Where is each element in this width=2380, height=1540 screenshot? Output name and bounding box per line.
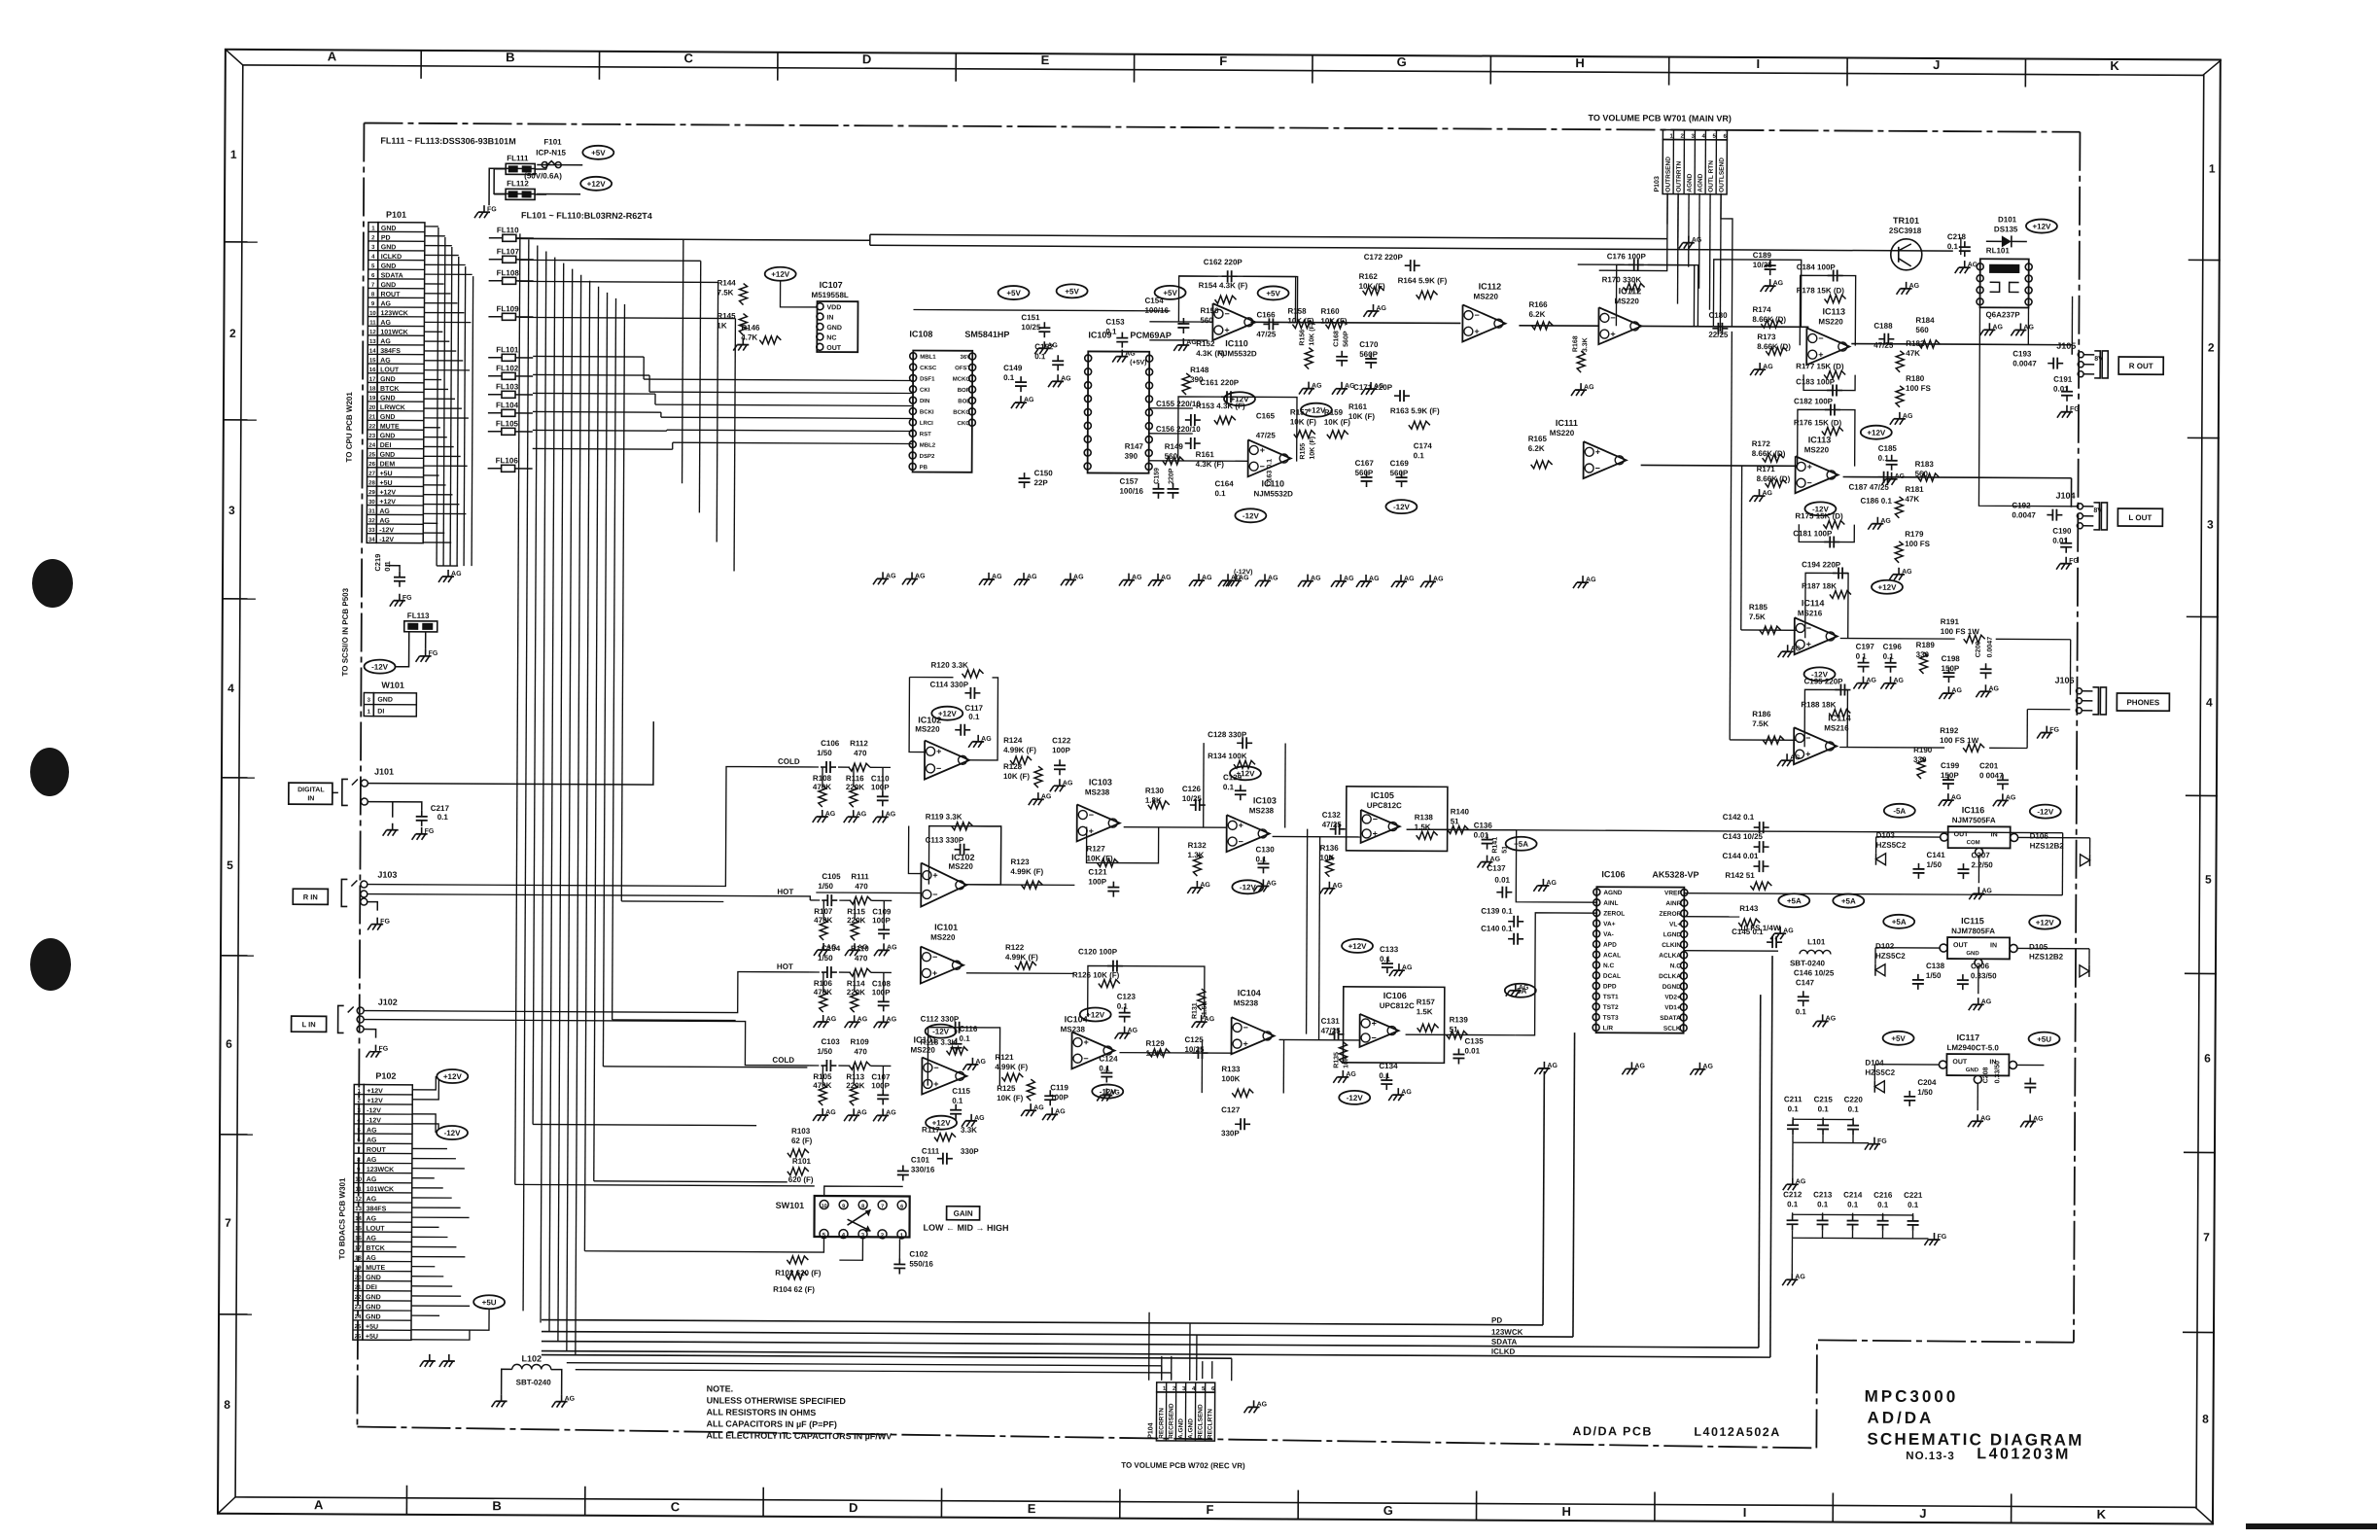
svg-text:FL102: FL102 <box>496 364 519 372</box>
svg-text:C149: C149 <box>1003 364 1023 372</box>
svg-text:CLKIN: CLKIN <box>1662 942 1681 949</box>
svg-text:+12V: +12V <box>587 180 607 189</box>
svg-text:N.C: N.C <box>1670 962 1682 969</box>
svg-text:7.5K: 7.5K <box>1749 612 1766 621</box>
svg-text:0.1: 0.1 <box>1907 1201 1919 1209</box>
svg-text:-12V: -12V <box>1393 503 1411 511</box>
svg-text:AG: AG <box>1033 1104 1044 1111</box>
svg-text:E: E <box>1028 1501 1036 1516</box>
svg-text:+: + <box>1474 327 1479 336</box>
svg-text:COM: COM <box>1967 840 1980 846</box>
svg-text:R122: R122 <box>1005 943 1025 952</box>
svg-text:C131: C131 <box>1321 1017 1341 1026</box>
svg-text:−: − <box>936 763 941 773</box>
svg-text:0.1: 0.1 <box>437 813 449 822</box>
svg-text:SDATA: SDATA <box>1660 1015 1681 1022</box>
svg-text:GND: GND <box>380 395 396 402</box>
svg-text:C197: C197 <box>1856 643 1875 651</box>
svg-text:C119: C119 <box>1050 1083 1068 1092</box>
svg-text:C150: C150 <box>1034 469 1054 477</box>
svg-text:ALL RESISTORS IN OHMS: ALL RESISTORS IN OHMS <box>707 1407 817 1417</box>
svg-text:IC114: IC114 <box>1828 713 1851 722</box>
svg-text:LOUT: LOUT <box>380 367 400 373</box>
svg-text:GND: GND <box>381 263 397 270</box>
svg-text:HZS12B2: HZS12B2 <box>2030 842 2065 851</box>
svg-text:UPC812C: UPC812C <box>1367 801 1402 810</box>
svg-text:AGND: AGND <box>1687 173 1694 192</box>
svg-text:+: + <box>933 1079 938 1089</box>
svg-text:C145 0.1: C145 0.1 <box>1732 927 1764 936</box>
svg-text:MS216: MS216 <box>1824 723 1849 732</box>
svg-text:AG: AG <box>1344 576 1354 582</box>
svg-text:390: 390 <box>1125 452 1138 461</box>
svg-text:0.0047: 0.0047 <box>2012 510 2036 519</box>
svg-text:IN: IN <box>1990 942 1997 949</box>
svg-text:H: H <box>1575 55 1584 70</box>
svg-text:10/25: 10/25 <box>1021 323 1041 332</box>
svg-text:0.1: 0.1 <box>952 1097 963 1105</box>
svg-text:IC111: IC111 <box>1556 418 1578 428</box>
svg-text:D101: D101 <box>1998 215 2017 224</box>
svg-text:R140: R140 <box>1451 807 1470 816</box>
svg-text:RECLSEND: RECLSEND <box>1197 1404 1204 1439</box>
svg-text:J102: J102 <box>378 997 398 1007</box>
svg-text:AG: AG <box>826 1016 837 1023</box>
svg-text:SBT-0240: SBT-0240 <box>1790 959 1826 967</box>
svg-text:C120 100P: C120 100P <box>1078 947 1118 956</box>
svg-text:26: 26 <box>355 1334 362 1340</box>
svg-text:R165: R165 <box>1528 435 1548 443</box>
svg-text:4.99K (F): 4.99K (F) <box>1010 867 1043 876</box>
svg-text:+5U: +5U <box>482 1298 497 1307</box>
svg-text:C151: C151 <box>1021 313 1040 322</box>
svg-text:IC113: IC113 <box>1822 306 1845 316</box>
svg-text:123WCK: 123WCK <box>367 1167 394 1173</box>
svg-text:AG: AG <box>1125 351 1136 358</box>
svg-text:R111: R111 <box>851 872 869 881</box>
svg-text:+5A: +5A <box>1841 897 1856 906</box>
svg-text:R161: R161 <box>1348 402 1368 411</box>
svg-text:GAIN: GAIN <box>954 1209 973 1218</box>
svg-text:0.1: 0.1 <box>1414 451 1425 460</box>
svg-text:C138: C138 <box>1926 962 1945 970</box>
svg-text:1.5K: 1.5K <box>1417 1007 1433 1016</box>
svg-text:+5U: +5U <box>366 1334 378 1341</box>
svg-text:AG: AG <box>1369 576 1380 582</box>
svg-text:+: + <box>1806 640 1811 649</box>
svg-text:MS238: MS238 <box>1234 998 1259 1007</box>
svg-text:AG: AG <box>1634 1063 1645 1069</box>
svg-text:123WCK: 123WCK <box>380 310 407 317</box>
svg-text:+12V: +12V <box>2036 919 2055 927</box>
svg-text:0 0047: 0 0047 <box>1979 771 2004 780</box>
svg-text:FL111 ~ FL113:DSS306-93B101M: FL111 ~ FL113:DSS306-93B101M <box>380 136 515 147</box>
svg-text:A: A <box>328 49 337 63</box>
svg-text:AG: AG <box>1895 473 1906 480</box>
svg-text:7.5K: 7.5K <box>717 288 734 297</box>
svg-text:C107: C107 <box>871 1072 891 1081</box>
svg-text:C213: C213 <box>1813 1190 1833 1199</box>
svg-text:1: 1 <box>2209 161 2216 175</box>
svg-text:AG: AG <box>825 1109 836 1116</box>
svg-text:TST2: TST2 <box>1603 1004 1619 1011</box>
svg-text:AG: AG <box>2033 1116 2044 1123</box>
svg-text:3.3K: 3.3K <box>1582 337 1589 352</box>
svg-text:AG: AG <box>1951 687 1962 694</box>
svg-text:23: 23 <box>355 1305 362 1311</box>
svg-text:MPC3000: MPC3000 <box>1865 1387 1959 1407</box>
svg-text:C208: C208 <box>1982 1067 1989 1083</box>
svg-text:+5V: +5V <box>591 149 606 157</box>
svg-text:IC107: IC107 <box>820 280 843 290</box>
svg-text:MS220: MS220 <box>1550 429 1575 437</box>
svg-text:C125: C125 <box>1185 1035 1205 1044</box>
svg-text:C187 47/25: C187 47/25 <box>1849 483 1890 492</box>
svg-text:C170: C170 <box>1359 340 1379 349</box>
svg-text:AD/DA: AD/DA <box>1867 1409 1934 1427</box>
svg-text:R150: R150 <box>1200 306 1219 315</box>
svg-text:DIGITAL: DIGITAL <box>297 787 325 793</box>
svg-text:IC106: IC106 <box>1383 991 1407 1000</box>
svg-text:AG: AG <box>1692 237 1702 244</box>
svg-text:AG: AG <box>1128 1028 1138 1034</box>
svg-text:R191: R191 <box>1941 617 1960 626</box>
svg-text:GND: GND <box>381 226 397 232</box>
svg-text:C102: C102 <box>909 1249 928 1258</box>
svg-text:IN: IN <box>307 795 314 802</box>
svg-text:R109: R109 <box>851 1037 870 1046</box>
svg-text:UNLESS OTHERWISE SPECIFIED: UNLESS OTHERWISE SPECIFIED <box>707 1395 847 1406</box>
svg-text:AG: AG <box>1231 575 1242 581</box>
svg-text:J106: J106 <box>2054 676 2074 685</box>
svg-text:R161: R161 <box>1196 450 1215 459</box>
svg-text:MUTE: MUTE <box>380 424 400 431</box>
svg-text:PD: PD <box>1491 1316 1502 1325</box>
svg-text:N.C: N.C <box>1603 962 1615 969</box>
svg-text:2: 2 <box>229 327 236 340</box>
svg-text:0.1: 0.1 <box>1379 1071 1390 1080</box>
svg-text:C134: C134 <box>1379 1062 1398 1070</box>
svg-text:R156: R156 <box>1299 330 1306 346</box>
svg-text:IC117: IC117 <box>1957 1032 1980 1042</box>
svg-text:GND: GND <box>366 1275 381 1281</box>
svg-text:−: − <box>933 1063 938 1072</box>
svg-text:GND: GND <box>380 414 396 421</box>
svg-text:J101: J101 <box>374 767 394 777</box>
svg-text:MS220: MS220 <box>1474 293 1499 301</box>
svg-text:C183 100P: C183 100P <box>1796 377 1836 386</box>
svg-text:NJM7505FA: NJM7505FA <box>1952 816 1996 824</box>
svg-text:PCM69AP: PCM69AP <box>1130 331 1172 340</box>
svg-text:CKO: CKO <box>958 421 971 427</box>
svg-text:AG: AG <box>367 1176 377 1183</box>
svg-text:AG: AG <box>1312 383 1322 390</box>
svg-text:ZEROR: ZEROR <box>1659 911 1681 918</box>
svg-text:R184: R184 <box>1915 316 1935 325</box>
svg-text:R124: R124 <box>1003 736 1023 745</box>
svg-text:TO VOLUME PCB W702 (REC VR: TO VOLUME PCB W702 (REC VR) <box>1121 1461 1245 1471</box>
svg-text:−: − <box>1083 1054 1088 1064</box>
svg-text:R104 62 (F): R104 62 (F) <box>773 1285 815 1294</box>
svg-text:AG: AG <box>1266 880 1277 887</box>
svg-text:IC113: IC113 <box>1808 435 1832 444</box>
svg-text:16: 16 <box>355 1236 362 1242</box>
svg-text:C110: C110 <box>871 774 890 783</box>
svg-text:−: − <box>1818 333 1823 343</box>
svg-text:+12V: +12V <box>771 270 790 279</box>
svg-text:+: + <box>932 870 937 880</box>
svg-text:-12V: -12V <box>371 663 389 672</box>
svg-text:−: − <box>1243 1023 1248 1032</box>
svg-text:R166: R166 <box>1528 300 1548 309</box>
svg-text:0.1: 0.1 <box>1883 652 1895 661</box>
svg-text:AG: AG <box>1790 754 1801 761</box>
svg-text:H: H <box>1562 1504 1571 1519</box>
svg-text:29: 29 <box>368 490 375 496</box>
svg-text:C201: C201 <box>1979 761 1999 770</box>
svg-text:C193: C193 <box>2012 349 2032 358</box>
svg-text:VREF: VREF <box>1664 890 1681 896</box>
svg-text:A.GND: A.GND <box>1187 1418 1194 1439</box>
svg-text:C146 10/25: C146 10/25 <box>1794 968 1835 977</box>
svg-text:C167: C167 <box>1355 459 1375 468</box>
svg-text:C172 220P: C172 220P <box>1364 253 1404 262</box>
svg-text:−: − <box>1474 310 1479 320</box>
svg-text:1/50: 1/50 <box>817 1047 832 1056</box>
svg-text:R185: R185 <box>1749 603 1768 612</box>
svg-text:C137: C137 <box>1487 864 1506 873</box>
svg-text:C142 0.1: C142 0.1 <box>1723 813 1755 822</box>
svg-text:C113 330P: C113 330P <box>926 836 964 845</box>
svg-text:+5A: +5A <box>1514 840 1528 849</box>
svg-text:1/50: 1/50 <box>818 954 833 962</box>
svg-text:MS238: MS238 <box>1249 806 1275 815</box>
svg-text:VA+: VA+ <box>1603 921 1616 927</box>
svg-text:28: 28 <box>368 480 375 486</box>
svg-text:AG: AG <box>1762 490 1772 497</box>
svg-text:DS135: DS135 <box>1994 225 2018 233</box>
svg-text:C105: C105 <box>822 872 841 881</box>
svg-text:AG: AG <box>887 1016 897 1023</box>
svg-text:FL107: FL107 <box>497 247 520 256</box>
svg-text:C188: C188 <box>1873 322 1893 331</box>
svg-text:C220: C220 <box>1844 1096 1864 1104</box>
svg-text:OUTLSEND: OUTLSEND <box>1719 157 1726 192</box>
svg-text:ALL ELECTROLYTIC CAPACITORS IN: ALL ELECTROLYTIC CAPACITORS IN µF/WV <box>706 1430 892 1441</box>
svg-text:100P: 100P <box>872 988 891 997</box>
svg-text:100/16: 100/16 <box>1144 306 1169 315</box>
svg-text:AG: AG <box>367 1196 377 1203</box>
svg-text:+12V: +12V <box>1307 406 1326 415</box>
svg-text:330P: 330P <box>961 1147 979 1156</box>
svg-text:R127: R127 <box>1087 844 1106 853</box>
svg-text:0.01: 0.01 <box>1464 1046 1480 1055</box>
svg-text:LOW ← MID → HIGH: LOW ← MID → HIGH <box>924 1223 1009 1233</box>
svg-text:L101: L101 <box>1807 937 1826 946</box>
svg-text:+: + <box>1242 1039 1247 1049</box>
svg-text:OUT: OUT <box>826 345 842 352</box>
svg-text:R116: R116 <box>846 774 864 783</box>
svg-text:R179: R179 <box>1905 530 1924 539</box>
svg-text:0.1: 0.1 <box>960 1034 971 1043</box>
svg-text:C166: C166 <box>1256 310 1276 319</box>
svg-text:FG: FG <box>2070 406 2080 413</box>
svg-text:FL111: FL111 <box>507 154 529 162</box>
svg-text:C194 220P: C194 220P <box>1802 560 1841 569</box>
svg-text:J: J <box>1933 57 1940 72</box>
svg-text:TO BDACS PCB W301: TO BDACS PCB W301 <box>337 1177 346 1259</box>
svg-text:R144: R144 <box>717 278 737 287</box>
svg-text:C141: C141 <box>1927 851 1946 859</box>
svg-text:W101: W101 <box>381 681 404 690</box>
svg-text:VDD: VDD <box>826 304 841 311</box>
svg-text:0.1: 0.1 <box>1117 1002 1129 1011</box>
svg-text:3.3K: 3.3K <box>961 1126 977 1135</box>
svg-text:4: 4 <box>2206 695 2213 709</box>
svg-text:1.3K: 1.3K <box>1188 851 1205 859</box>
svg-text:−: − <box>1372 1032 1377 1042</box>
svg-text:FL110: FL110 <box>497 226 519 234</box>
svg-text:+12V: +12V <box>938 710 958 718</box>
svg-text:100 FS 1W: 100 FS 1W <box>1941 627 1980 636</box>
svg-text:36V: 36V <box>961 355 971 361</box>
svg-text:33: 33 <box>368 528 375 534</box>
svg-text:4.3K (F): 4.3K (F) <box>1196 349 1225 358</box>
svg-text:4.7K: 4.7K <box>741 333 757 342</box>
svg-text:0.33/50: 0.33/50 <box>1994 1061 2001 1083</box>
svg-text:(-12V): (-12V) <box>1234 569 1252 576</box>
svg-text:C169: C169 <box>1390 459 1410 468</box>
svg-text:AG: AG <box>975 1059 986 1066</box>
svg-text:620 (F): 620 (F) <box>788 1175 814 1184</box>
svg-text:AG: AG <box>1893 678 1904 684</box>
svg-text:IC103: IC103 <box>1089 777 1112 787</box>
svg-text:AG: AG <box>1433 576 1444 582</box>
svg-text:+5U: +5U <box>366 1324 378 1331</box>
svg-text:HOT: HOT <box>777 888 793 896</box>
svg-text:MS220: MS220 <box>1804 445 1830 454</box>
svg-text:PHONES: PHONES <box>2126 698 2159 707</box>
svg-text:+12V: +12V <box>443 1072 463 1081</box>
svg-text:IC106: IC106 <box>1601 869 1625 879</box>
svg-text:C116: C116 <box>960 1025 978 1033</box>
svg-text:+5V: +5V <box>1163 289 1177 297</box>
svg-text:TO CPU PCB W201: TO CPU PCB W201 <box>345 392 354 463</box>
svg-text:OUT: OUT <box>1954 831 1970 838</box>
svg-text:0.1: 0.1 <box>1380 955 1391 963</box>
svg-text:ICP-N15: ICP-N15 <box>536 148 566 157</box>
svg-text:AG: AG <box>1200 882 1210 889</box>
svg-text:D103: D103 <box>1876 831 1896 840</box>
svg-text:R119 3.3K: R119 3.3K <box>926 813 962 822</box>
svg-text:0.1: 0.1 <box>1787 1200 1799 1208</box>
svg-text:AGND: AGND <box>1697 173 1704 192</box>
svg-text:GND: GND <box>377 697 393 704</box>
svg-text:C163 0.1: C163 0.1 <box>1267 459 1274 487</box>
svg-text:J104: J104 <box>2055 491 2075 501</box>
svg-text:C186 0.1: C186 0.1 <box>1860 497 1892 506</box>
svg-text:SW101: SW101 <box>776 1201 805 1210</box>
svg-text:AG: AG <box>1161 575 1172 581</box>
svg-text:C136: C136 <box>1474 822 1493 830</box>
svg-text:C140 0.1: C140 0.1 <box>1481 925 1513 933</box>
svg-text:F101: F101 <box>543 138 562 147</box>
svg-text:C182 100P: C182 100P <box>1794 397 1834 405</box>
svg-text:HZS12B2: HZS12B2 <box>2029 953 2064 962</box>
svg-text:C206: C206 <box>1971 962 1990 970</box>
svg-text:R172: R172 <box>1752 439 1771 448</box>
svg-text:AG: AG <box>887 944 897 951</box>
svg-text:R101: R101 <box>792 1157 812 1166</box>
svg-text:R126 10K (F): R126 10K (F) <box>1072 970 1120 979</box>
svg-text:FL101 ~ FL110:BL03RN2-R62T4: FL101 ~ FL110:BL03RN2-R62T4 <box>521 210 652 221</box>
svg-text:AG: AG <box>1866 678 1876 684</box>
svg-text:0.1: 0.1 <box>1105 328 1117 336</box>
svg-text:560P: 560P <box>1390 469 1409 477</box>
svg-text:6: 6 <box>900 1204 903 1209</box>
svg-text:−: − <box>1805 733 1810 743</box>
svg-text:5: 5 <box>227 858 233 872</box>
svg-text:FL109: FL109 <box>496 304 519 313</box>
svg-text:L/R: L/R <box>1603 1025 1614 1032</box>
svg-text:560: 560 <box>1915 326 1929 334</box>
svg-text:12: 12 <box>355 1197 362 1203</box>
svg-text:DCAL: DCAL <box>1603 973 1621 980</box>
svg-text:0.1: 0.1 <box>1877 1201 1889 1209</box>
svg-text:+: + <box>1372 1019 1377 1029</box>
svg-text:C190: C190 <box>2052 527 2072 536</box>
svg-text:AG: AG <box>1826 1015 1837 1022</box>
svg-text:C108: C108 <box>872 979 892 988</box>
svg-text:M519558L: M519558L <box>812 291 849 299</box>
svg-text:1/50: 1/50 <box>1917 1088 1933 1097</box>
svg-text:560: 560 <box>1200 316 1213 325</box>
svg-text:LM2940CT-5.0: LM2940CT-5.0 <box>1946 1043 1999 1052</box>
svg-text:−: − <box>1089 810 1094 820</box>
svg-text:AG: AG <box>1988 685 1999 692</box>
svg-text:19: 19 <box>355 1266 362 1272</box>
svg-text:L OUT: L OUT <box>2128 513 2152 522</box>
svg-text:R141: R141 <box>1492 837 1499 854</box>
svg-text:1/50: 1/50 <box>818 882 833 891</box>
svg-text:C109: C109 <box>872 907 892 916</box>
svg-text:D105: D105 <box>2029 943 2048 952</box>
svg-text:IC115: IC115 <box>1961 916 1984 926</box>
svg-text:AG: AG <box>1027 574 1037 580</box>
svg-text:DEM: DEM <box>380 461 396 468</box>
svg-text:C219: C219 <box>373 554 382 572</box>
svg-text:1: 1 <box>230 148 237 161</box>
svg-text:C217: C217 <box>431 804 450 813</box>
svg-text:R155: R155 <box>1300 443 1307 460</box>
svg-text:8: 8 <box>861 1204 864 1209</box>
svg-text:BTCK: BTCK <box>366 1245 384 1252</box>
svg-text:SM5841HP: SM5841HP <box>964 330 1009 339</box>
svg-text:11: 11 <box>356 1187 363 1193</box>
svg-text:AG: AG <box>1268 575 1278 581</box>
svg-text:C164: C164 <box>1215 479 1235 488</box>
svg-text:+: + <box>1805 750 1810 759</box>
svg-text:4.99K (F): 4.99K (F) <box>1005 953 1038 962</box>
svg-text:C115: C115 <box>952 1087 970 1096</box>
svg-text:−: − <box>1806 623 1811 633</box>
svg-text:C161 220P: C161 220P <box>1200 378 1240 387</box>
svg-text:R190: R190 <box>1913 746 1933 754</box>
svg-text:R183: R183 <box>1915 460 1935 469</box>
svg-text:+: + <box>1260 445 1265 455</box>
svg-text:4: 4 <box>227 682 234 695</box>
svg-text:GND: GND <box>380 452 396 459</box>
